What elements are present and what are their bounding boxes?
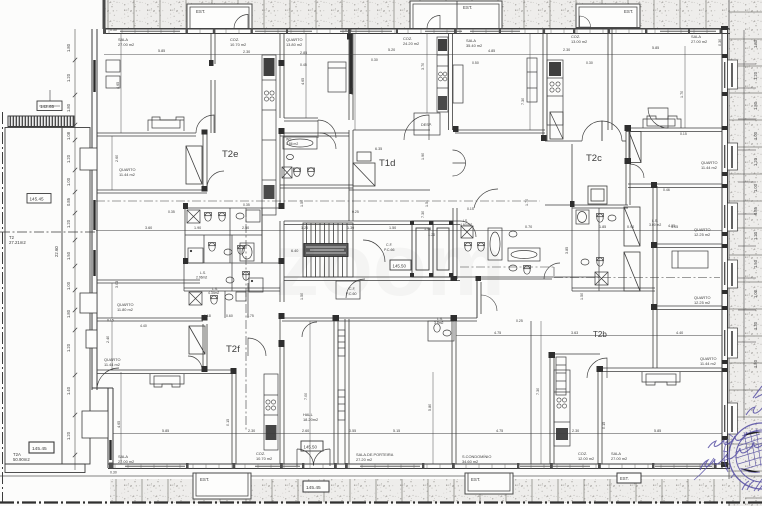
right dimension chain labels	[753, 39, 758, 368]
svg-text:4.40: 4.40	[140, 324, 147, 328]
dash-dot section lines	[96, 201, 720, 430]
svg-text:2.60: 2.60	[302, 429, 309, 433]
svg-text:EST.: EST.	[624, 9, 633, 14]
bottom dimension chain y432	[113, 433, 722, 435]
window boxes left wall	[80, 148, 108, 438]
top band joint lines	[108, 0, 732, 28]
svg-text:4.75: 4.75	[496, 429, 503, 433]
svg-text:3.85: 3.85	[565, 247, 569, 254]
level box 145.50 hall	[301, 441, 323, 451]
window boxes right wall	[728, 60, 738, 434]
C.F. box below stairs	[336, 281, 360, 299]
svg-text:1.90: 1.90	[194, 226, 201, 230]
svg-text:1.75: 1.75	[247, 314, 254, 318]
wall x628 T2c	[626, 127, 630, 205]
svg-text:0.15: 0.15	[602, 422, 606, 429]
left boundary dash-dot line	[2, 112, 4, 502]
left terrace T2A outline	[5, 128, 90, 473]
T2b bath zone walls	[572, 205, 655, 291]
svg-text:10.70 m2: 10.70 m2	[230, 42, 246, 47]
svg-text:4.65: 4.65	[301, 78, 305, 85]
interior spine wall x280	[280, 33, 284, 464]
QUARTO 11.44 left walls	[97, 133, 207, 193]
core bottom wall y277	[284, 277, 600, 281]
svg-text:1.80: 1.80	[753, 101, 758, 110]
svg-text:1.48: 1.48	[424, 227, 431, 231]
svg-text:0.50: 0.50	[472, 61, 479, 65]
svg-text:34.60 m2: 34.60 m2	[462, 459, 478, 464]
svg-text:35.40 m2: 35.40 m2	[466, 43, 482, 48]
svg-text:2.85: 2.85	[300, 51, 307, 55]
svg-text:1.30: 1.30	[753, 321, 758, 330]
central dimension chain y229	[96, 230, 722, 232]
svg-text:13.80 m2: 13.80 m2	[286, 42, 302, 47]
svg-text:1.90: 1.90	[421, 153, 425, 160]
svg-text:3.63: 3.63	[571, 331, 578, 335]
svg-text:1.00: 1.00	[753, 289, 758, 298]
svg-text:0.46: 0.46	[663, 188, 670, 192]
svg-text:1.00: 1.00	[753, 131, 758, 140]
EST balcony box top-right	[576, 4, 640, 28]
EST2 divider	[456, 1, 458, 28]
bottom EST box right	[617, 473, 641, 483]
svg-text:EST.: EST.	[196, 9, 205, 14]
svg-text:1.50: 1.50	[580, 293, 584, 300]
wardrobe right column A	[624, 207, 640, 246]
svg-text:145.45: 145.45	[306, 485, 321, 491]
T2c bath fixtures	[576, 210, 616, 285]
svg-text:4.75: 4.75	[494, 331, 501, 335]
svg-text:1.00: 1.00	[66, 177, 71, 186]
bottom band joint lines	[116, 479, 740, 502]
stair landing	[304, 244, 348, 257]
svg-text:1.50: 1.50	[66, 251, 71, 260]
svg-text:7.30: 7.30	[421, 211, 425, 218]
elevator shaft	[412, 221, 433, 277]
T2c hall walls	[545, 141, 626, 205]
kitchen counter T2c	[547, 60, 563, 125]
svg-text:5.20: 5.20	[388, 48, 395, 52]
wardrobe right column B	[624, 252, 640, 291]
svg-text:1.30: 1.30	[347, 226, 354, 230]
svg-text:1.18: 1.18	[204, 314, 211, 318]
svg-text:1.50: 1.50	[389, 226, 396, 230]
svg-text:EST.: EST.	[463, 5, 472, 10]
svg-text:T2b: T2b	[593, 330, 607, 339]
staircase core	[303, 223, 353, 277]
svg-text:3.03: 3.03	[115, 281, 119, 288]
stamp emblem cross-hatch	[736, 428, 762, 473]
svg-text:142.65: 142.65	[40, 104, 54, 109]
svg-text:11.44 m2: 11.44 m2	[700, 361, 716, 366]
left bath row 2 fixtures	[188, 243, 254, 264]
svg-text:27.00 m2: 27.00 m2	[118, 459, 134, 464]
bath WS T2e fixtures	[282, 137, 317, 178]
armchairs SALA top-left	[106, 60, 120, 88]
kitchen appliances T2e	[264, 58, 275, 199]
svg-text:5.85: 5.85	[652, 46, 659, 50]
sprinkled small dims	[107, 28, 687, 328]
svg-text:5.85: 5.85	[654, 429, 661, 433]
svg-text:3.70: 3.70	[421, 63, 425, 70]
terrace hatched bar	[8, 116, 74, 127]
wall QUARTO13.80|COZ24.20 x349	[349, 33, 353, 221]
svg-text:1.20: 1.20	[66, 431, 71, 440]
bottom outer wall	[108, 464, 730, 469]
right bay window bars	[731, 63, 733, 432]
svg-text:EST.: EST.	[620, 476, 629, 481]
svg-text:0.30: 0.30	[371, 58, 378, 62]
svg-text:4.65: 4.65	[350, 88, 354, 95]
svg-text:0.30: 0.30	[586, 61, 593, 65]
svg-text:5.85: 5.85	[158, 49, 165, 53]
svg-text:7.30: 7.30	[521, 98, 525, 105]
horizontal dash-dot through terrace	[0, 231, 96, 233]
wall x545 COZ13 left	[543, 33, 547, 141]
core top wall y221	[284, 221, 460, 225]
right outer wall	[722, 26, 728, 468]
svg-text:2.96m2: 2.96m2	[196, 276, 207, 280]
door arcs	[97, 15, 668, 391]
kitchen appliances T1d	[438, 39, 447, 110]
wall x655 right column	[653, 186, 657, 368]
second shaft	[433, 221, 453, 277]
svg-text:1.50: 1.50	[753, 259, 758, 268]
poche dark wall x351	[350, 36, 353, 94]
svg-text:0.25: 0.25	[516, 319, 523, 323]
svg-text:0.30: 0.30	[718, 39, 722, 46]
left bath row 1 fixtures	[187, 210, 260, 223]
svg-text:11.80 m2: 11.80 m2	[117, 307, 133, 312]
T1d bath 2 fixtures	[508, 248, 540, 274]
svg-text:7.00: 7.00	[304, 393, 308, 400]
level box 145.50 core	[390, 260, 411, 270]
arc right of stair	[363, 240, 385, 262]
svg-text:24.20 m2: 24.20 m2	[403, 41, 419, 46]
corridor bottom left y283	[97, 280, 200, 283]
svg-text:3.00 m2: 3.00 m2	[649, 223, 661, 227]
svg-text:1.20: 1.20	[753, 231, 758, 240]
T2b small bath fixtures	[428, 321, 454, 341]
level box 145.45 lower	[29, 442, 54, 453]
svg-text:0.15: 0.15	[680, 132, 687, 136]
T1d hall walls	[349, 130, 545, 190]
wardrobe T1d hall	[353, 152, 375, 186]
T2b dimension line y334	[456, 335, 722, 337]
svg-text:1.80: 1.80	[66, 309, 71, 318]
svg-text:L.S.: L.S.	[200, 271, 206, 275]
top wall piers	[103, 29, 723, 35]
sofa SALA bottom-left	[150, 374, 184, 387]
svg-text:11.44 m2: 11.44 m2	[104, 362, 120, 367]
svg-text:EST.: EST.	[200, 477, 209, 482]
svg-text:13.00 m2: 13.00 m2	[571, 39, 587, 44]
svg-text:22.60: 22.60	[54, 246, 59, 257]
COZ12 appliances	[556, 398, 568, 440]
svg-text:1.00: 1.00	[753, 183, 758, 192]
top outer wall	[104, 29, 730, 34]
kitchen counter T2e	[262, 55, 276, 215]
EST balcony box top-middle	[410, 1, 502, 29]
right strip joint lines	[729, 12, 762, 498]
right speckle strip	[729, 0, 762, 506]
outer wall left (lower, stepped)	[92, 388, 113, 468]
svg-text:1.20: 1.20	[753, 71, 758, 80]
svg-text:0.25: 0.25	[352, 210, 359, 214]
glazed partition S.CONDOMINIO	[530, 321, 532, 464]
svg-text:0.85: 0.85	[753, 206, 758, 215]
svg-text:4.40: 4.40	[676, 331, 683, 335]
S.CONDOMINIO upper jog wall	[476, 279, 478, 318]
small dims rotated	[106, 39, 722, 429]
svg-text:0.35: 0.35	[243, 203, 250, 207]
svg-text:EST.: EST.	[471, 477, 480, 482]
svg-text:4.65: 4.65	[116, 82, 120, 89]
svg-text:0.15: 0.15	[107, 319, 114, 323]
svg-text:0.60: 0.60	[226, 314, 233, 318]
double-leaf door T1d->SALA	[453, 150, 466, 176]
sofa SALA 35.40	[527, 58, 537, 102]
svg-text:2.30: 2.30	[243, 50, 250, 54]
COZ10.70 kitchen counter bottom	[264, 374, 278, 450]
DESP T1d	[414, 113, 440, 135]
bottom wall piers	[109, 463, 717, 469]
COZ10.70 appliances	[266, 400, 277, 440]
sofa SALA top-right	[643, 116, 681, 128]
top wall window segments	[120, 30, 716, 32]
wardrobe QUARTO11.44 lower-left	[189, 326, 205, 354]
interior dim lines vertical	[112, 33, 685, 464]
svg-text:1.70: 1.70	[525, 199, 529, 206]
svg-text:1.20: 1.20	[66, 219, 71, 228]
svg-text:12.25 m2: 12.25 m2	[694, 300, 710, 305]
svg-text:27.00 m2: 27.00 m2	[611, 456, 627, 461]
svg-text:0.45: 0.45	[300, 63, 307, 67]
right wall piers	[721, 26, 728, 467]
svg-text:4.65: 4.65	[117, 421, 121, 428]
WS bath bottom wall y185	[280, 185, 353, 188]
svg-text:1.80: 1.80	[753, 39, 758, 48]
right column horizontal walls	[600, 128, 722, 372]
left dimension chain	[74, 29, 76, 470]
bottom wall window segments	[125, 465, 712, 467]
cabinet SALA 35.40	[453, 65, 463, 103]
svg-text:4.34m2: 4.34m2	[208, 291, 219, 295]
svg-text:DESP.: DESP.	[421, 123, 432, 127]
svg-text:1.20: 1.20	[753, 157, 758, 166]
svg-text:0.55: 0.55	[349, 429, 356, 433]
bottom EST box middle	[465, 473, 513, 494]
room labels	[104, 34, 718, 464]
corridor door arc right of core	[474, 189, 498, 208]
top dimension chain y51	[158, 46, 659, 55]
kitchen appliances T2c	[549, 62, 563, 139]
svg-text:11.44 m2: 11.44 m2	[119, 172, 135, 177]
bath walls T2f	[184, 235, 280, 318]
top sidewalk speckle band	[103, 0, 746, 29]
QUARTO11.44 lower bottom wall y372	[97, 324, 234, 374]
svg-text:1.20: 1.20	[66, 73, 71, 82]
svg-text:T1d: T1d	[379, 158, 395, 169]
svg-text:1.20: 1.20	[428, 233, 435, 237]
svg-text:1.20: 1.20	[66, 154, 71, 163]
svg-text:27.21m2: 27.21m2	[9, 240, 26, 245]
svg-text:1.85: 1.85	[599, 225, 606, 229]
wall x457 T1d SALA right	[449, 33, 458, 279]
svg-text:T2c: T2c	[586, 153, 602, 164]
corridor walls T2e y208	[185, 208, 280, 263]
corridor wall y318 center	[282, 279, 552, 321]
svg-text:1.80: 1.80	[66, 43, 71, 52]
T2e room bottom wall y133	[97, 133, 349, 136]
svg-text:0.85: 0.85	[66, 197, 71, 206]
svg-text:11.44 m2: 11.44 m2	[701, 165, 717, 170]
svg-text:12.00 m2: 12.00 m2	[578, 456, 594, 461]
door arc S.CONDOMINIO upper	[481, 295, 497, 311]
window dark segs left wall	[95, 60, 111, 460]
svg-text:0.70: 0.70	[525, 225, 532, 229]
right wall window segments	[724, 62, 726, 432]
svg-text:0.30: 0.30	[110, 28, 117, 32]
svg-text:10.70 m2: 10.70 m2	[256, 456, 272, 461]
courette COZ12	[556, 357, 566, 395]
svg-text:50.90m2: 50.90m2	[13, 457, 30, 462]
svg-text:4.05: 4.05	[668, 224, 675, 228]
svg-text:1.20: 1.20	[66, 343, 71, 352]
bath partition walls T2e	[204, 208, 262, 263]
T1d bath fixtures	[461, 226, 517, 260]
wall x610 COZ13|SALA27	[608, 29, 612, 130]
left chain ticks	[73, 58, 77, 457]
level box 145.45 upper	[27, 194, 51, 204]
stamp curved caption	[723, 434, 734, 478]
svg-text:0.30: 0.30	[345, 28, 352, 32]
svg-text:3.60: 3.60	[145, 226, 152, 230]
interior junction piers	[183, 34, 657, 375]
svg-text:5.15: 5.15	[393, 429, 400, 433]
bed QUARTO13.80	[328, 62, 346, 92]
svg-text:18.20m2: 18.20m2	[303, 417, 318, 422]
svg-text:5.80: 5.80	[428, 404, 432, 411]
svg-text:2.60: 2.60	[115, 155, 119, 162]
svg-text:27.00 m2: 27.00 m2	[691, 39, 707, 44]
arc below stair	[346, 279, 365, 298]
T2f bath fixtures	[189, 292, 246, 305]
svg-text:6.35: 6.35	[375, 147, 382, 151]
svg-text:1.80: 1.80	[66, 103, 71, 112]
svg-text:1.20: 1.20	[301, 226, 308, 230]
level box 142.65	[37, 90, 62, 111]
COZ12 kitchen counter bottom right	[554, 370, 570, 446]
HALL entrance double door	[297, 447, 330, 466]
outer wall left (upper)	[92, 29, 97, 390]
svg-text:7.30: 7.30	[536, 388, 540, 395]
bottom rooms dividing walls	[232, 319, 602, 464]
svg-text:3.8m2: 3.8m2	[434, 321, 444, 325]
svg-text:1.70: 1.70	[680, 91, 684, 98]
svg-text:1.08: 1.08	[66, 131, 71, 140]
svg-text:2.30: 2.30	[248, 429, 255, 433]
svg-text:0.90: 0.90	[627, 225, 634, 229]
kitchen counter T1d	[437, 37, 448, 112]
EST balcony box top-left	[187, 4, 252, 29]
svg-text:0.15: 0.15	[226, 419, 230, 426]
bottom wall window mullion ticks	[115, 464, 713, 469]
wall SALA|COZ T2e x215	[211, 33, 215, 133]
svg-text:1.86 m2: 1.86 m2	[286, 142, 298, 146]
baths above T2f fixtures	[226, 246, 263, 293]
svg-text:1.40: 1.40	[66, 386, 71, 395]
svg-text:2.30: 2.30	[572, 429, 579, 433]
stamp bottom right	[729, 423, 762, 489]
wardrobe QUARTO11.44 top-left	[186, 146, 202, 184]
svg-text:5.85: 5.85	[162, 429, 169, 433]
svg-text:27.20 m2: 27.20 m2	[356, 457, 372, 462]
duct box T2c hall	[588, 186, 607, 204]
stamp handwriting Lancado	[694, 386, 762, 491]
QUARTO11.80 bottom wall y318	[97, 318, 203, 321]
svg-text:0.35: 0.35	[168, 210, 175, 214]
wardrobe T2c right	[629, 132, 641, 163]
bottom EST box left	[193, 473, 251, 499]
svg-text:1.80: 1.80	[753, 359, 758, 368]
svg-text:T2e: T2e	[222, 149, 238, 160]
svg-text:2.40: 2.40	[106, 336, 110, 343]
HALL top door arc	[302, 322, 317, 337]
svg-text:1.00: 1.00	[66, 281, 71, 290]
svg-text:T2f: T2f	[226, 344, 240, 355]
sofa SALA bottom-right	[642, 372, 680, 385]
svg-text:12.25 m2: 12.25 m2	[694, 232, 710, 237]
QUARTO13.80 bottom wall y120	[284, 118, 318, 121]
svg-text:145.45: 145.45	[30, 197, 44, 202]
bottom speckle band	[0, 476, 762, 503]
svg-text:27.00 m2: 27.00 m2	[118, 42, 134, 47]
svg-text:145.45: 145.45	[32, 446, 47, 452]
level box 145.45 bottom	[303, 481, 329, 492]
top wall window mullion ticks	[109, 29, 720, 34]
svg-text:2.50: 2.50	[242, 226, 249, 230]
svg-text:WS: WS	[286, 138, 292, 142]
bottom heavy dash-dot boundary	[0, 501, 762, 503]
svg-text:2.30: 2.30	[563, 48, 570, 52]
svg-text:4.85: 4.85	[488, 49, 495, 53]
svg-text:0.30: 0.30	[110, 471, 117, 475]
svg-text:0.15: 0.15	[467, 207, 474, 211]
sofa SALA top-left	[148, 117, 184, 131]
duct shaft x336-347	[338, 330, 345, 420]
bed QUARTO 12.25 right	[672, 251, 708, 268]
svg-text:145.50: 145.50	[304, 445, 318, 450]
apartment labels	[222, 149, 602, 355]
top rooms dimension chain line y54	[104, 54, 722, 56]
